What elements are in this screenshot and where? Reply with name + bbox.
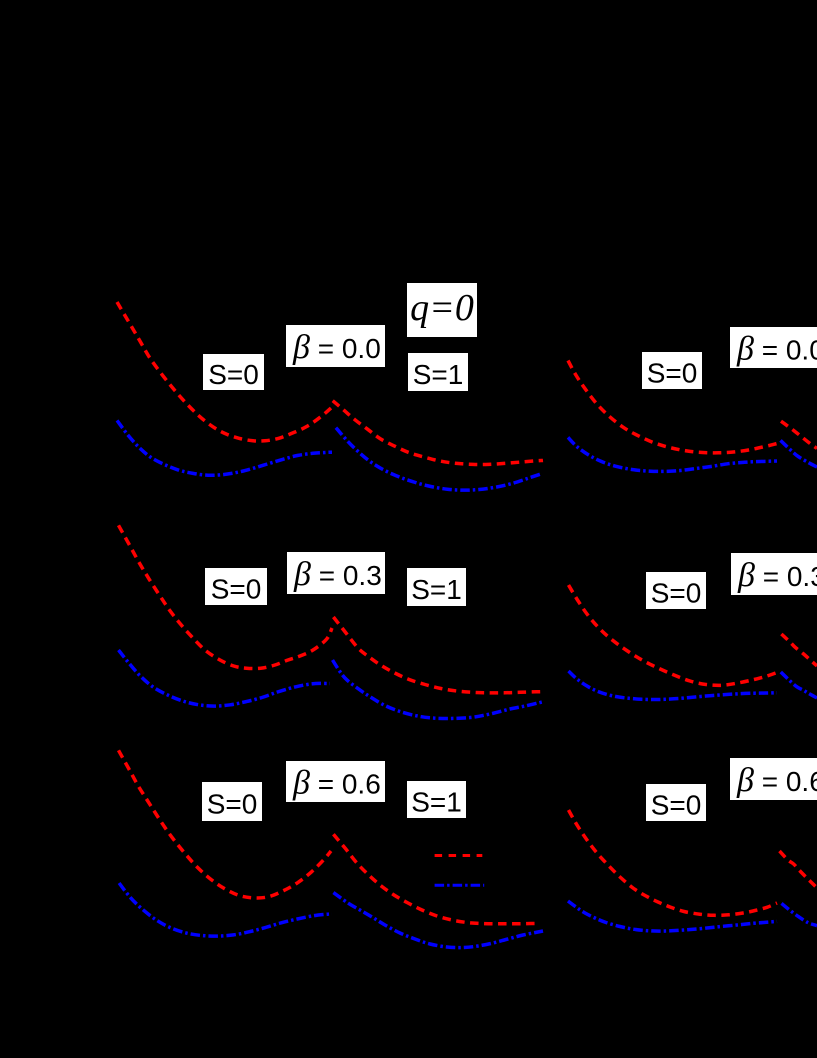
title q=0 xyxy=(407,283,477,337)
svg-text:S=0: S=0 xyxy=(211,574,262,605)
label beta=0.6 panel bot-left xyxy=(286,761,385,802)
curve red dashed S=0 panel bot-right xyxy=(569,810,778,915)
svg-text:β = 0.6: β = 0.6 xyxy=(292,765,381,802)
curve blue dashdot S=1 panel mid-left xyxy=(333,660,544,719)
svg-text:S=0: S=0 xyxy=(651,578,702,609)
label S=1 panel top-left xyxy=(408,353,468,391)
curve red dashed S=1 panel mid-left xyxy=(333,617,543,693)
svg-text:S=0: S=0 xyxy=(207,789,258,820)
svg-text:β = 0.3: β = 0.3 xyxy=(737,557,817,594)
curve red dashed S=1 panel top-right xyxy=(781,421,817,448)
curve blue dashdot S=1 panel top-left xyxy=(336,428,541,490)
svg-text:S=1: S=1 xyxy=(411,787,462,818)
label S=0 panel top-left xyxy=(203,354,264,390)
label S=0 panel bot-left xyxy=(202,782,262,821)
svg-text:β = 0.6: β = 0.6 xyxy=(736,762,817,799)
svg-text:β = 0.0: β = 0.0 xyxy=(292,329,381,366)
curve red dashed S=0 panel mid-left xyxy=(119,525,333,668)
label S=0 panel bot-right xyxy=(646,784,706,821)
curve red dashed S=0 panel bot-left xyxy=(119,750,332,898)
label beta=0.3 panel mid-right xyxy=(731,553,817,595)
curve blue dashdot S=1 panel top-right xyxy=(781,440,817,467)
curve blue dashdot S=1 panel bot-right xyxy=(782,903,817,925)
legend blue dashdot sample xyxy=(435,884,485,887)
curve blue dashdot S=0 panel top-left xyxy=(117,420,332,475)
curve blue dashdot S=0 panel bot-right xyxy=(568,901,777,931)
curve red dashed S=1 panel top-left xyxy=(333,401,543,465)
curve blue dashdot S=0 panel mid-left xyxy=(119,650,331,706)
svg-text:S=0: S=0 xyxy=(651,790,702,821)
curve red dashed S=0 panel top-right xyxy=(568,361,777,453)
curve blue dashdot S=0 panel mid-right xyxy=(569,671,778,700)
svg-text:β = 0.0: β = 0.0 xyxy=(736,331,817,368)
curve blue dashdot S=1 panel bot-left xyxy=(333,893,543,948)
label beta=0.6 panel bot-right xyxy=(730,758,817,800)
svg-text:β = 0.3: β = 0.3 xyxy=(293,556,382,593)
label beta=0.0 panel top-right xyxy=(730,327,817,368)
curve blue dashdot S=0 panel top-right xyxy=(568,437,777,471)
curve red dashed S=1 panel mid-right xyxy=(781,634,817,666)
svg-text:q=0: q=0 xyxy=(410,287,474,329)
curve red dashed S=1 panel bot-right xyxy=(780,851,817,888)
label S=0 panel mid-left xyxy=(205,568,267,605)
svg-text:S=0: S=0 xyxy=(208,359,259,390)
svg-text:S=1: S=1 xyxy=(411,574,462,605)
curve red dashed S=0 panel mid-right xyxy=(569,585,778,685)
label S=0 panel top-right xyxy=(642,352,702,389)
legend red dashed sample xyxy=(435,854,483,857)
label beta=0.3 panel mid-left xyxy=(287,552,385,594)
label beta=0.0 panel top-left xyxy=(286,325,385,367)
curve blue dashdot S=0 panel bot-left xyxy=(119,883,332,936)
label S=0 panel mid-right xyxy=(646,572,706,609)
curve red dashed S=0 panel top-left xyxy=(117,302,331,441)
svg-text:S=0: S=0 xyxy=(647,358,698,389)
label S=1 panel bot-left xyxy=(407,781,466,818)
svg-text:S=1: S=1 xyxy=(413,359,464,390)
curve red dashed S=1 panel bot-left xyxy=(333,834,540,924)
label S=1 panel mid-left xyxy=(407,568,466,606)
curve blue dashdot S=1 panel mid-right xyxy=(781,672,817,698)
